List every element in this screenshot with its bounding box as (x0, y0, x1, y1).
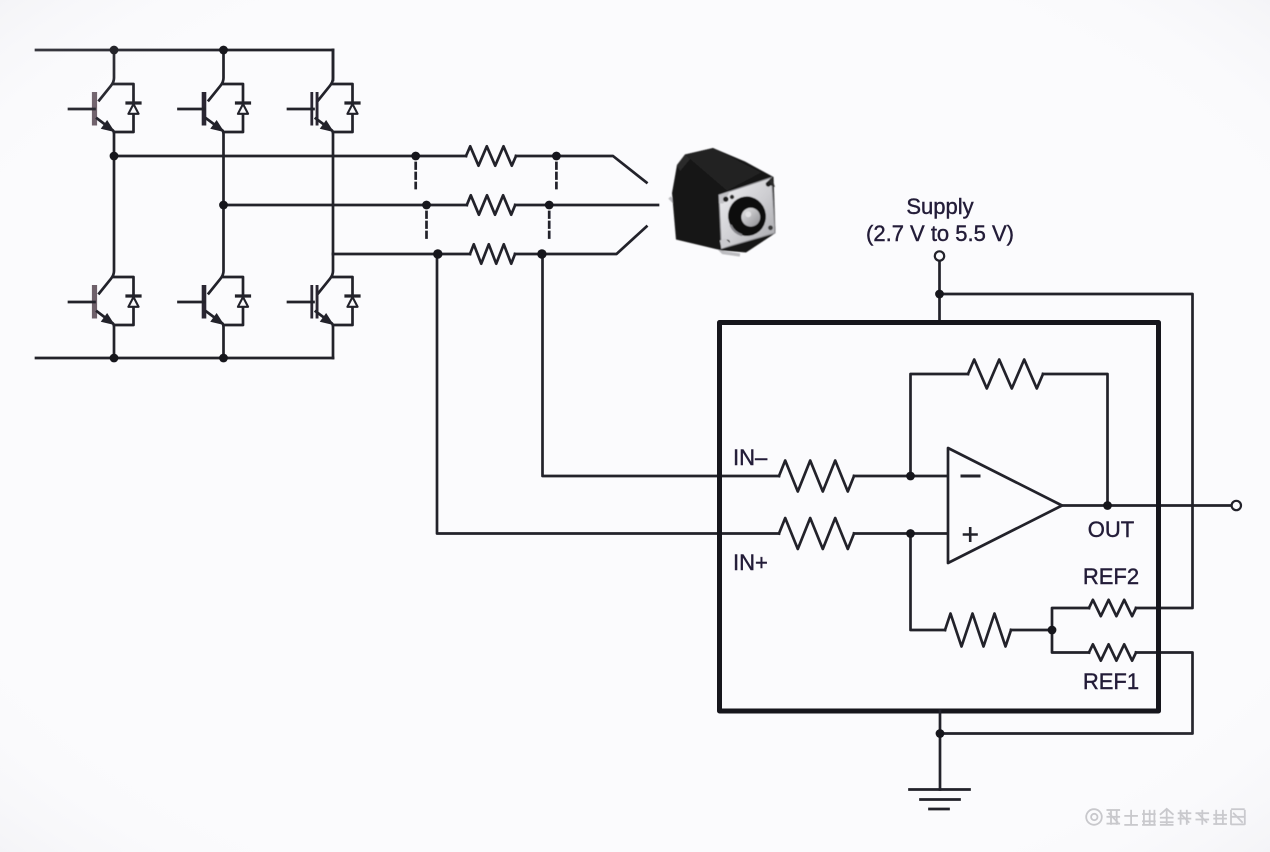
wire gate lead (69, 301, 95, 304)
emitter arrow (102, 121, 113, 130)
dashed stub sense B right (548, 212, 551, 238)
junction phase A leg1 (110, 152, 119, 161)
junction bottom bus leg2 (219, 354, 228, 363)
junction top bus leg2 (219, 46, 228, 55)
dashed stub sense A left (414, 163, 417, 188)
wire sense B leads (427, 204, 550, 207)
resistor REF2 (1089, 600, 1136, 616)
gate bar (202, 92, 207, 126)
motor shaft (741, 208, 760, 227)
wire sense C left to IN+ (437, 254, 779, 534)
wire gain resistor path from IN+ node (911, 534, 1053, 631)
terminal OUT open circle (1232, 501, 1241, 510)
wire phase C rail (333, 253, 438, 256)
wire REF node split (1052, 608, 1089, 653)
transistor Q5 (phase B low side) (179, 205, 250, 358)
gate bar (202, 285, 207, 319)
transistor Q3 (phase C high side) (288, 50, 359, 254)
junction phase B leg2 (219, 201, 228, 210)
junction IN+ node (906, 529, 915, 538)
emitter arrow (321, 314, 332, 324)
emitter arrow (212, 121, 223, 130)
resistor sense B (467, 195, 515, 214)
junction IN- node (906, 472, 915, 481)
junction supply (935, 290, 944, 299)
freewheel diode (114, 84, 140, 132)
wire gate lead (288, 301, 314, 304)
freewheel diode (333, 277, 359, 325)
wire emitter (97, 119, 114, 157)
op-amp minus sign (962, 475, 979, 478)
transistor Q6 (phase C low side) (288, 254, 359, 358)
wire collector (99, 156, 114, 293)
gate bar (92, 285, 97, 319)
junction sense A right (552, 152, 561, 161)
emitter arrow (212, 314, 223, 324)
op-amp plus sign (964, 528, 977, 540)
wire collector (209, 205, 224, 293)
wire emitter (316, 312, 333, 359)
dashed stub sense A right (555, 163, 558, 188)
junction output node (1103, 501, 1112, 510)
transistor Q2 (phase B high side) (179, 50, 250, 205)
wire phase A to motor (556, 156, 646, 183)
junction ground node (936, 729, 945, 738)
wire emitter (97, 312, 114, 359)
emitter arrow (321, 121, 332, 130)
junction REF node (1048, 626, 1057, 635)
dashed stub sense B left (425, 212, 428, 238)
motor body (672, 148, 776, 253)
wire bottom DC bus (36, 357, 333, 360)
resistor input IN+ (779, 518, 854, 549)
wire phase A rail (114, 155, 416, 158)
wire REF2 to supply rail (940, 294, 1193, 608)
wire sense C right to IN- (543, 254, 780, 476)
transistor Q4 (phase A low side) (69, 156, 140, 358)
resistor sense A (466, 146, 516, 165)
wire REF1 to ground rail (940, 653, 1193, 734)
motor photo (stepper motor) (670, 148, 776, 255)
motor screws (720, 178, 775, 249)
motor face plate (719, 178, 775, 249)
gate bar (92, 92, 97, 126)
junction bottom bus leg1 (110, 354, 119, 363)
wire ground stem (939, 711, 942, 790)
wire phase B rail (224, 204, 427, 207)
wire feedback loop (911, 374, 1108, 506)
wire gate lead (179, 108, 205, 111)
terminal Supply open circle (935, 251, 944, 260)
ground symbol (910, 790, 970, 810)
freewheel diode (333, 84, 359, 132)
wire gate lead (288, 108, 314, 111)
wire emitter (206, 312, 223, 359)
gate bar (310, 285, 318, 319)
wire phase B to motor (549, 204, 658, 207)
wire supply terminal drop (938, 261, 941, 323)
transistor Q1 (phase A high side) (69, 50, 140, 156)
wire gate lead (179, 301, 205, 304)
junction sense C right (537, 249, 546, 258)
op-amp U1 (948, 448, 1062, 563)
wire collector (209, 50, 224, 100)
watermark (1086, 809, 1245, 825)
wire collector (318, 254, 333, 293)
amplifier IC box (720, 323, 1159, 712)
gate bar (310, 92, 318, 126)
freewheel diode (224, 277, 250, 325)
wire collector (99, 50, 114, 100)
resistor feedback (968, 360, 1043, 389)
wire emitter (206, 119, 223, 206)
wire leg3 top corner (332, 50, 335, 80)
resistor input IN- (779, 461, 854, 492)
resistor sense C (470, 244, 515, 263)
wire top DC bus (36, 49, 333, 52)
junction sense A left (411, 152, 420, 161)
junction sense B right (545, 201, 554, 210)
wire IN+ to op-amp (854, 532, 948, 535)
wire sense A leads (416, 155, 557, 158)
motor top face (685, 148, 761, 191)
resistor gain (945, 614, 1011, 647)
wire op-amp output to OUT terminal (1062, 504, 1232, 507)
wire phase C to motor (542, 227, 647, 255)
freewheel diode (224, 84, 250, 132)
motor base sliver (670, 198, 741, 256)
junction top bus leg1 (110, 46, 119, 55)
emitter arrow (102, 314, 113, 324)
resistor REF1 (1089, 644, 1136, 660)
motor bore (726, 194, 769, 238)
wire IN- to op-amp (854, 475, 948, 478)
freewheel diode (114, 277, 140, 325)
junction sense C left (433, 249, 442, 258)
wire gate lead (69, 108, 95, 111)
wire collector (318, 50, 333, 100)
junction sense B left (422, 201, 431, 210)
wire sense C leads (438, 253, 542, 256)
wire emitter (316, 119, 333, 255)
